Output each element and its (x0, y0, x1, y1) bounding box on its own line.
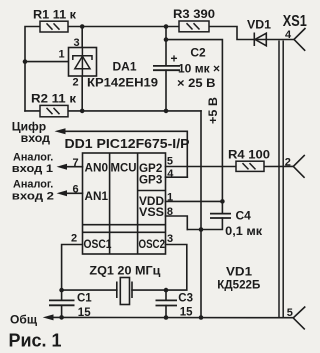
arrow analog input 2 (57, 190, 67, 196)
wire GP2 pin5 to R4 (166, 166, 237, 168)
capacitor C2 (153, 66, 180, 70)
svg-text:4: 4 (285, 29, 292, 41)
svg-text:0,1 мк: 0,1 мк (225, 226, 262, 238)
svg-text:VSS: VSS (139, 207, 164, 219)
svg-text:вход 1: вход 1 (12, 163, 53, 175)
wire +5V top rail R1 to R3 (68, 26, 179, 28)
junction node C3 ground (164, 315, 169, 320)
wire +5V branch to VDD column (166, 40, 222, 202)
svg-text:+5 В: +5 В (206, 97, 220, 124)
XS1 pin 4 socket (294, 28, 306, 51)
microcontroller DD1 box (83, 153, 166, 254)
svg-text:5: 5 (167, 155, 173, 167)
svg-text:C4: C4 (236, 209, 252, 223)
svg-text:7: 7 (73, 157, 79, 169)
svg-text:OSC1: OSC1 (84, 239, 113, 251)
arrow analog input 1 (57, 164, 67, 170)
svg-text:10 мк ×: 10 мк × (178, 63, 220, 75)
svg-text:C3: C3 (178, 293, 193, 305)
svg-text:6: 6 (73, 184, 79, 196)
svg-text:GP3: GP3 (139, 175, 162, 187)
wire crystal right lead (132, 289, 166, 291)
svg-text:× 25 В: × 25 В (177, 78, 216, 90)
wire DA1 pin2 vertical (81, 76, 83, 111)
arrow digital input (55, 128, 66, 134)
wire VDD pin1 (166, 200, 223, 202)
resistor R2 (40, 105, 68, 116)
capacitor C3 (156, 300, 178, 305)
svg-text:8: 8 (167, 206, 173, 218)
wire GP3 pin4 (166, 176, 188, 178)
junction node R1-DA1 (80, 24, 85, 29)
svg-text:2: 2 (285, 156, 291, 168)
wire R3 right to diode via corner (209, 27, 294, 40)
svg-text:MCU: MCU (111, 163, 137, 175)
svg-text:Цифр: Цифр (12, 122, 46, 134)
junction node C2 top (164, 24, 169, 29)
wire R4 right to XS1 pin2 (264, 165, 293, 167)
wire ground mid rail R2 row (25, 110, 201, 112)
svg-text:15: 15 (180, 307, 193, 319)
svg-text:вход 2: вход 2 (12, 190, 54, 202)
XS1 double line (279, 41, 283, 318)
wire C3 leads (165, 290, 167, 317)
svg-text:DD1 PIC12F675-I/P: DD1 PIC12F675-I/P (65, 136, 190, 151)
junction node VSS ground (199, 227, 204, 232)
svg-text:КР142ЕН19: КР142ЕН19 (87, 76, 158, 90)
svg-text:XS1: XS1 (283, 13, 307, 30)
junction node OSC2 crystal (164, 288, 169, 293)
svg-text:2: 2 (73, 77, 79, 89)
junction node C1 ground (59, 315, 64, 320)
svg-text:3: 3 (167, 233, 173, 245)
svg-text:1: 1 (167, 191, 173, 203)
svg-text:R4 100: R4 100 (228, 150, 270, 162)
svg-text:VD1: VD1 (247, 19, 272, 31)
capacitor C4 (210, 214, 231, 218)
svg-text:R2 11 к: R2 11 к (31, 93, 76, 105)
wire DA1 pin3 vertical (81, 27, 83, 48)
wire AN1 pin6 (66, 192, 83, 194)
capacitor C1 (49, 300, 75, 305)
crystal ZQ1 (117, 278, 132, 305)
junction node C2 bottom (164, 109, 169, 114)
wire OSC2 pin3 down to crystal node (166, 245, 187, 291)
voltage reference DA1 box (69, 48, 97, 77)
svg-text:2: 2 (71, 233, 77, 245)
svg-text:вход: вход (21, 133, 51, 145)
wire C2 upper lead (165, 27, 167, 66)
wire ground bottom rail (53, 316, 293, 318)
wire C1 leads (61, 290, 63, 317)
XS1 pin 5 socket (293, 307, 305, 330)
svg-text:4: 4 (167, 168, 174, 180)
junction node +5V branch (164, 37, 169, 42)
svg-text:Общ: Общ (10, 312, 38, 326)
wire C4 bottom to ground corner (187, 218, 222, 230)
svg-text:ZQ1 20 МГц: ZQ1 20 МГц (89, 265, 160, 277)
wire crystal left lead (62, 289, 117, 291)
svg-text:Аналог.: Аналог. (13, 151, 53, 163)
svg-text:GP2: GP2 (139, 163, 162, 175)
svg-text:VD1: VD1 (226, 266, 253, 278)
svg-text:1: 1 (59, 49, 65, 61)
svg-text:OSC2: OSC2 (139, 239, 166, 251)
wire top rail left corner to R1 (25, 27, 40, 112)
svg-text:5: 5 (287, 307, 293, 319)
resistor R4 (236, 161, 264, 171)
svg-text:15: 15 (78, 307, 91, 319)
junction node DA1 anode (80, 109, 85, 114)
svg-text:AN1: AN1 (85, 191, 109, 203)
wire AN0 pin7 (66, 166, 83, 168)
junction node DA1 ref (23, 59, 28, 64)
wire DA1 pin1 to divider rail (25, 61, 69, 63)
resistor R1 (40, 21, 68, 32)
wire digital input to GP3 (65, 131, 187, 177)
diode VD1 (254, 33, 266, 47)
svg-text:+: + (171, 52, 178, 66)
DA1 internal symbol (73, 48, 92, 77)
svg-text:C2: C2 (190, 45, 206, 59)
wire C2 lower lead (165, 70, 167, 111)
wire ground vertical line (200, 111, 202, 318)
wire VDD column to C4 top (221, 201, 223, 213)
svg-text:R3 390: R3 390 (173, 9, 215, 21)
svg-text:DA1: DA1 (113, 60, 137, 74)
junction node ground line bottom (199, 315, 204, 320)
XS1 pin 2 socket (293, 155, 305, 178)
arrow common (43, 314, 54, 320)
svg-text:Рис. 1: Рис. 1 (9, 331, 62, 351)
svg-text:AN0: AN0 (85, 163, 109, 175)
svg-text:КД522Б: КД522Б (217, 280, 260, 292)
junction node VDD (220, 199, 225, 204)
resistor R3 (179, 21, 209, 32)
svg-text:VDD: VDD (139, 196, 164, 208)
svg-text:C1: C1 (77, 293, 92, 305)
wire VSS pin8 to ground corner (166, 216, 188, 230)
svg-text:R1 11 к: R1 11 к (33, 9, 76, 21)
wire OSC1 pin2 down to crystal node (62, 245, 83, 291)
svg-text:Аналог.: Аналог. (13, 178, 53, 190)
junction node OSC1 crystal (59, 288, 64, 293)
svg-text:3: 3 (74, 37, 80, 49)
